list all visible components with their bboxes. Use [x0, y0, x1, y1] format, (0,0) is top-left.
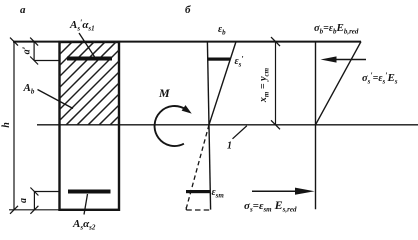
- svg-text:а: а: [18, 198, 29, 203]
- concrete section outline: [60, 42, 120, 210]
- a bottom tick: [30, 206, 38, 214]
- leader of label 1: [233, 126, 247, 139]
- a dimension line: [33, 192, 35, 210]
- a extension line bottom: [9, 209, 59, 211]
- a extension line top: [34, 191, 58, 193]
- h dimension line: [13, 42, 15, 210]
- a' extension line: [34, 60, 58, 62]
- moment arc: [155, 106, 186, 146]
- a' top tick: [30, 38, 38, 46]
- a' dimension line: [33, 42, 35, 61]
- svg-text:σs′=εs′Es: σs′=εs′Es: [362, 71, 398, 86]
- h top tick: [10, 38, 18, 46]
- svg-text:h: h: [1, 122, 12, 128]
- stress diagram zero line: [315, 42, 317, 210]
- moment arrowhead: [182, 105, 194, 116]
- neutral axis line: [37, 124, 418, 126]
- svg-text:а: а: [20, 4, 26, 16]
- eps_sm bar: [186, 190, 210, 193]
- stress profile diagonal: [316, 42, 362, 125]
- h bottom tick: [10, 206, 18, 214]
- a' bottom tick: [30, 57, 38, 65]
- svg-text:M: M: [158, 86, 170, 100]
- svg-text:1: 1: [227, 141, 232, 152]
- strain diagram axis: [207, 42, 210, 210]
- leader to top bar: [79, 33, 95, 58]
- eps_s' bar: [208, 58, 231, 61]
- dashed bottom corner vertical: [185, 207, 187, 210]
- leader Ab: [38, 90, 74, 109]
- tension steel stress arrow: [252, 190, 298, 192]
- dashed bottom closing line: [186, 209, 212, 211]
- top edge line: [13, 41, 361, 43]
- hatching of compressed zone: [0, 30, 216, 130]
- svg-text:а′: а′: [22, 46, 33, 54]
- x_m top tick: [271, 37, 280, 46]
- compression steel stress arrow: [332, 59, 366, 61]
- x_m = y_cm dimension line: [275, 42, 277, 125]
- strain profile solid: [209, 42, 236, 125]
- x_m bottom tick: [271, 120, 280, 129]
- bottom reinforcement bar As: [68, 190, 111, 194]
- top reinforcement bar As': [67, 57, 112, 61]
- a top tick: [30, 188, 38, 196]
- leader to bottom bar: [84, 194, 88, 215]
- svg-text:б: б: [185, 4, 191, 16]
- strain profile dashed: [187, 125, 210, 208]
